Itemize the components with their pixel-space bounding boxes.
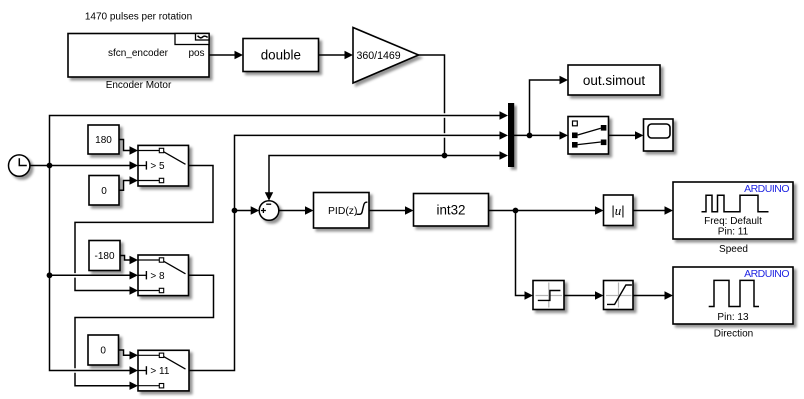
arrow into direction <box>665 291 674 299</box>
arrow into gain <box>345 51 354 59</box>
svg-text:pos: pos <box>188 48 204 59</box>
wire clock branch to switch2 control <box>50 274 132 276</box>
constant -180 <box>89 241 120 271</box>
sum block <box>259 201 279 221</box>
arrow into switch1 control <box>130 161 139 169</box>
svg-text:Encoder Motor: Encoder Motor <box>106 80 172 91</box>
svg-text:> 5: > 5 <box>150 161 165 172</box>
wire PID to int32 <box>369 210 407 212</box>
wire mux out to manual switch <box>514 134 562 136</box>
svg-text:0: 0 <box>100 346 106 357</box>
arrow into scope <box>635 131 644 139</box>
arrow into switch3 in3 <box>130 382 139 390</box>
node gain-mux junction <box>442 153 448 159</box>
wire encoder to double <box>209 54 237 56</box>
svg-text:360/1469: 360/1469 <box>357 50 401 62</box>
node mux out junction <box>527 133 533 139</box>
svg-text:out.simout: out.simout <box>583 73 646 88</box>
svg-text:> 11: > 11 <box>150 366 169 377</box>
arrow into switch3 control <box>130 366 139 374</box>
relay block <box>533 281 564 310</box>
wire gain output down <box>419 55 445 113</box>
wire const 0b to switch3 in1 <box>119 350 132 355</box>
arrow into speed <box>665 206 674 214</box>
switch > 8 <box>138 255 189 296</box>
arrow into mux in2 <box>500 131 509 139</box>
arrow into switch2 control <box>130 271 139 279</box>
wire clock to switch1 control <box>30 165 132 167</box>
saturation block <box>604 281 634 310</box>
wire switch1-switch2 vertical lower part (break at y=275.3) <box>75 278 132 291</box>
svg-text:0: 0 <box>101 186 107 197</box>
wire double to gain <box>319 54 348 56</box>
wire branch up to out.simout <box>530 80 562 135</box>
svg-text:Direction: Direction <box>714 329 753 340</box>
arrow into switch2 in1 <box>130 256 139 264</box>
svg-text:double: double <box>261 48 301 63</box>
arrow into sum top <box>265 192 273 201</box>
switch > 11 <box>138 350 189 391</box>
svg-text:Speed: Speed <box>719 244 748 255</box>
svg-text:180: 180 <box>95 135 112 146</box>
wire switch2 out to switch3 in3 <box>75 275 214 368</box>
node clock-top junction <box>47 163 53 169</box>
wire junction to mux in3 <box>445 155 502 157</box>
data type conversion block double <box>243 39 319 72</box>
arrow into switch2 in3 <box>130 286 139 294</box>
clock <box>9 155 30 176</box>
wire sum to PID <box>279 210 307 212</box>
arrow into double <box>235 51 244 59</box>
svg-text:1470 pulses per rotation: 1470 pulses per rotation <box>85 12 192 23</box>
wire int32 to abs <box>489 210 598 212</box>
arrow into switch3 in1 <box>130 351 139 359</box>
s-function block Encoder Motor <box>68 34 209 78</box>
svg-text:sfcn_encoder: sfcn_encoder <box>108 48 169 59</box>
wire branch down to relay <box>516 211 527 296</box>
wire abs to speed block <box>633 210 667 212</box>
svg-text:Pin: 11: Pin: 11 <box>718 226 749 237</box>
data type conversion block int32 <box>414 194 489 227</box>
wire const 0 to switch1 in3 <box>119 181 132 191</box>
arrow into int32 <box>405 206 414 214</box>
arrow into PID <box>305 206 314 214</box>
wire switch1 out to switch2 in3 <box>75 166 213 274</box>
wire clock branch down <box>50 166 132 371</box>
svg-text:|u|: |u| <box>611 203 624 218</box>
wire switch3 out up to mux in2 <box>189 135 502 370</box>
node switch2 control junction <box>47 272 53 278</box>
ARROWHEADS <box>130 51 674 390</box>
constant 0 (second) <box>88 335 119 365</box>
wire saturation to direction block <box>633 295 667 297</box>
arduino PWM block Speed <box>673 182 793 239</box>
arrow into switch1 in3 <box>130 176 139 184</box>
svg-text:Pin: 13: Pin: 13 <box>717 312 749 323</box>
svg-text:int32: int32 <box>436 203 465 218</box>
manual switch U1 <box>568 117 609 155</box>
constant 0 <box>89 176 119 206</box>
wire manual switch to scope <box>609 134 638 136</box>
node sum branch junction <box>232 208 238 214</box>
svg-text:ARDUINO: ARDUINO <box>744 183 789 195</box>
PID controller block <box>314 193 370 229</box>
svg-text:PID(z): PID(z) <box>328 206 357 217</box>
wire const -180 to switch2 in1 <box>120 256 132 261</box>
abs block |u| <box>604 195 634 226</box>
arrow into mux in3 <box>500 151 509 159</box>
svg-text:ARDUINO: ARDUINO <box>744 268 789 280</box>
wire gain vertical (break at crossing y=115.5) <box>444 118 446 133</box>
arrow into mux in1 <box>500 111 509 119</box>
to-workspace block out.simout <box>568 65 660 95</box>
wire const 180 to switch1 in1 <box>119 140 132 151</box>
scope <box>644 119 674 151</box>
mux <box>508 103 514 167</box>
arrow into relay <box>525 291 534 299</box>
arduino digital output block Direction <box>673 267 793 324</box>
wire branch to sum plus <box>235 210 253 212</box>
switch > 5 <box>138 145 189 186</box>
JUNCTION DOTS <box>47 133 533 279</box>
wire switch2-switch3 vertical lower part (break at y=370.5) <box>75 373 132 386</box>
wire relay to saturation <box>564 295 597 297</box>
gain block 360/1469 <box>353 28 419 84</box>
svg-text:-180: -180 <box>94 251 114 262</box>
node int32 branch junction <box>513 208 519 214</box>
arrow into manual switch <box>560 131 569 139</box>
arrow into switch1 in1 <box>130 146 139 154</box>
arrow into saturation <box>595 291 604 299</box>
constant 180 <box>88 125 119 154</box>
arrow into out.simout <box>560 76 569 84</box>
svg-text:> 8: > 8 <box>150 271 165 282</box>
arrow into sum left <box>251 206 260 214</box>
wire junction left to sum top <box>269 156 445 194</box>
arrow into abs <box>595 206 604 214</box>
wire gain vertical (break at crossing y=135.4) <box>444 138 446 156</box>
wire clock branch up to mux in1 <box>50 116 502 166</box>
